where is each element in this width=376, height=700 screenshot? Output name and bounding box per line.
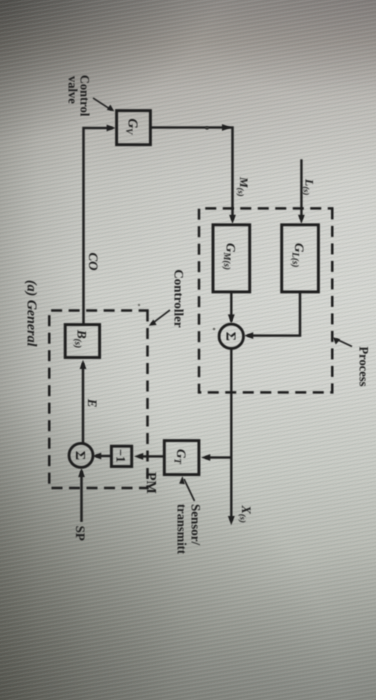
svg-text:X(s): X(s) bbox=[238, 505, 253, 523]
svg-text:(a) General: (a) General bbox=[24, 280, 39, 347]
svg-text:B(s): B(s) bbox=[73, 329, 90, 348]
svg-text:Sensor/: Sensor/ bbox=[189, 504, 204, 546]
svg-text:−1: −1 bbox=[114, 449, 128, 462]
svg-text:SP: SP bbox=[73, 526, 88, 541]
svg-text:PM: PM bbox=[143, 472, 158, 494]
svg-text:GL(s): GL(s) bbox=[291, 243, 308, 267]
svg-text:CO: CO bbox=[86, 253, 101, 272]
svg-text:transmitt: transmitt bbox=[175, 504, 189, 555]
svg-text:Control: Control bbox=[78, 75, 92, 117]
svg-text:Σ: Σ bbox=[72, 451, 87, 460]
svg-text:L(s): L(s) bbox=[302, 178, 317, 195]
svg-text:Process: Process bbox=[357, 347, 371, 387]
svg-text:GM(s): GM(s) bbox=[222, 243, 239, 270]
svg-text:valve: valve bbox=[66, 76, 80, 104]
svg-text:M(s): M(s) bbox=[236, 176, 251, 197]
svg-text:Σ: Σ bbox=[222, 332, 237, 341]
svg-text:GV: GV bbox=[124, 119, 141, 136]
svg-text:E: E bbox=[85, 398, 99, 407]
svg-text:GT: GT bbox=[172, 449, 189, 464]
svg-text:Controller: Controller bbox=[172, 269, 187, 327]
